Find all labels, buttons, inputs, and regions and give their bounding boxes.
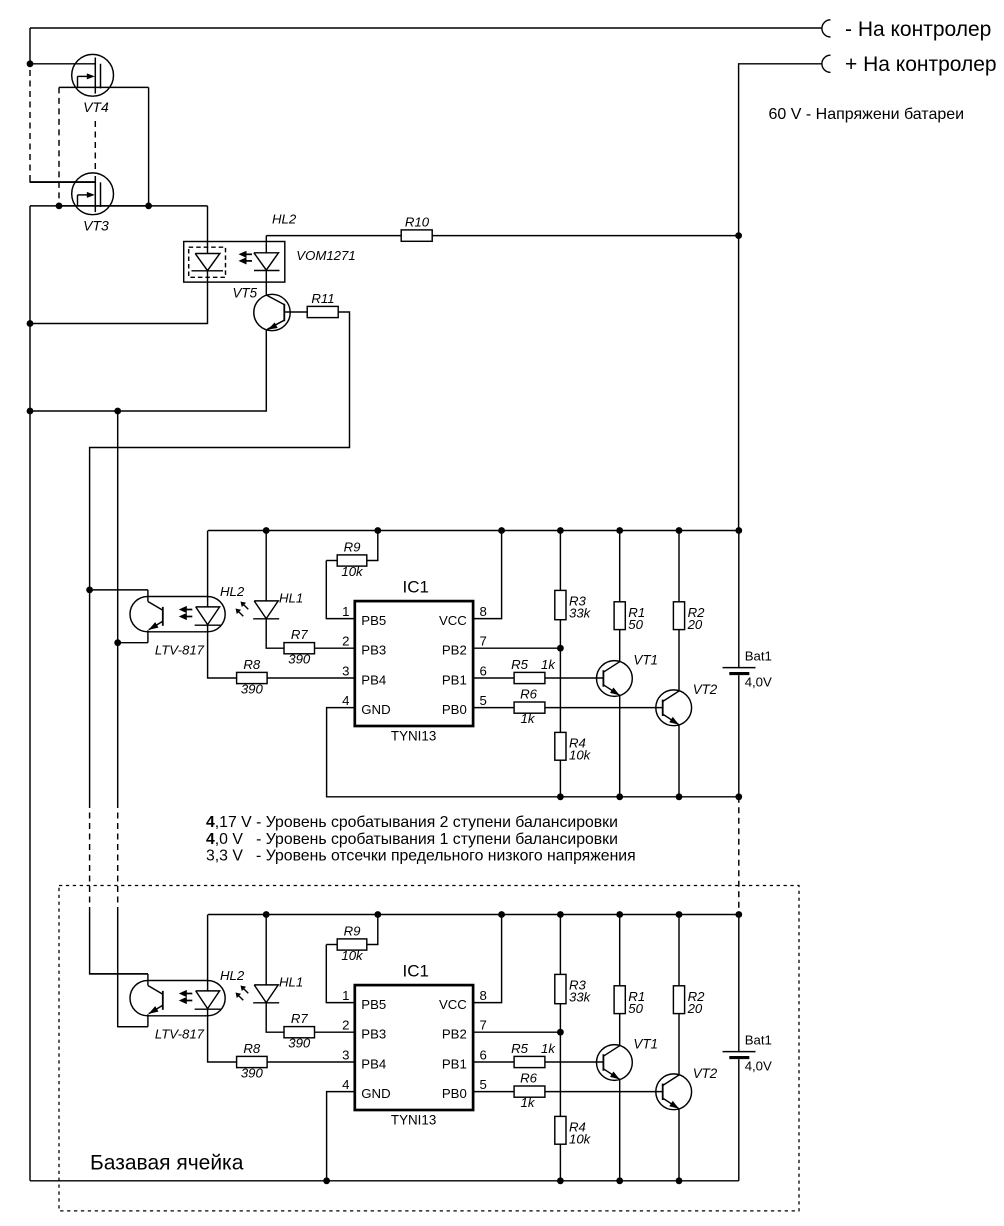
- optocoupler U3 VOM1271 body: [184, 242, 285, 283]
- node top rail junction (cell 1): [374, 527, 381, 534]
- svg-text:HL2: HL2: [220, 968, 245, 983]
- svg-text:4: 4: [342, 693, 349, 708]
- node top rail junction (cell 2): [735, 911, 742, 918]
- wire phototransistor collector lead (cell 2): [90, 973, 148, 975]
- svg-text:5: 5: [480, 1077, 487, 1092]
- wire opto collector drive dashed: [89, 802, 91, 912]
- wire cell bottom rail (cell 2): [30, 1180, 739, 1182]
- svg-text:PB1: PB1: [442, 672, 467, 687]
- svg-text:3: 3: [342, 664, 349, 679]
- svg-text:PB3: PB3: [361, 1027, 386, 1042]
- svg-text:HL1: HL1: [279, 591, 303, 606]
- svg-text:TYNI13: TYNI13: [391, 1113, 436, 1128]
- svg-text:6: 6: [480, 664, 487, 679]
- ic IC1 TYNI13 body (cell 2): [355, 985, 473, 1110]
- svg-text:2: 2: [342, 634, 349, 649]
- resistor R2 (cell 1): [678, 531, 680, 602]
- svg-text:R5: R5: [511, 1041, 529, 1056]
- svg-text:33k: 33k: [569, 605, 592, 620]
- svg-text:PB1: PB1: [442, 1056, 467, 1071]
- emission arrows HL1 (cell 1): [244, 605, 249, 610]
- wire phototransistor emitter lead (cell 1): [118, 642, 148, 644]
- optocoupler LTV-817 body (cell 1): [130, 597, 225, 632]
- node collector drive junction (cell 1): [86, 587, 93, 594]
- svg-text:4: 4: [342, 1077, 349, 1092]
- wire opto collector drive into cell2: [90, 912, 148, 974]
- svg-text:7: 7: [480, 1018, 487, 1033]
- svg-text:VOM1271: VOM1271: [296, 248, 355, 263]
- led HL2 of LTV-817 (cell 2): [207, 915, 209, 991]
- led of VOM1271: [265, 236, 267, 253]
- node photodiode-left rail: [27, 320, 34, 327]
- wire R5 to VT1 base (cell 1): [545, 677, 604, 679]
- svg-text:PB0: PB0: [442, 702, 467, 717]
- wire R5 to VT1 base (cell 2): [545, 1061, 604, 1063]
- node VT4 source junction: [145, 203, 152, 210]
- svg-text:IC1: IC1: [403, 578, 429, 597]
- svg-text:PB2: PB2: [442, 1027, 467, 1042]
- wire R8 to pin3 (cell 1): [267, 677, 355, 679]
- transistor VT1 (cell 1): [597, 661, 633, 697]
- svg-text:R9: R9: [344, 923, 362, 938]
- resistor R8 (cell 1): [237, 672, 268, 683]
- wire photodiode cathode to left rail: [30, 271, 208, 324]
- svg-text:8: 8: [480, 988, 487, 1003]
- light arrows LTV-817 (cell 2): [185, 993, 193, 995]
- node VT5 emitter rail-left rail: [27, 408, 34, 415]
- wire left rail main: [29, 206, 31, 1181]
- resistor R11: [307, 306, 338, 317]
- svg-text:5: 5: [480, 693, 487, 708]
- led HL2 of LTV-817 (cell 1): [207, 531, 209, 607]
- light arrows VOM1271: [245, 253, 253, 255]
- svg-text:PB3: PB3: [361, 643, 386, 658]
- transistor VT1 (cell 2): [597, 1045, 633, 1081]
- wire pin5 PB0 to R6 (cell 2): [473, 1091, 514, 1093]
- dotted box base cell: [59, 886, 799, 1211]
- wire - negative controller line: [30, 27, 822, 29]
- svg-text:60 V - Напряжени батареи: 60 V - Напряжени батареи: [769, 106, 965, 123]
- wire pin7 PB2 to R3/R4 node (cell 2): [473, 1031, 560, 1033]
- wire phototransistor collector lead (cell 1): [90, 589, 148, 591]
- wire R8 to pin3 (cell 2): [267, 1061, 355, 1063]
- svg-text:PB4: PB4: [361, 672, 386, 687]
- node R3-R4 divider (cell 2): [557, 1029, 564, 1036]
- wire phototransistor emitter lead (cell 2): [118, 1026, 148, 1028]
- wire HL1 cathode to R7 (cell 1): [266, 619, 284, 648]
- svg-text:10k: 10k: [341, 564, 364, 579]
- svg-text:R8: R8: [243, 1041, 261, 1056]
- svg-text:LTV-817: LTV-817: [155, 1027, 205, 1042]
- svg-text:PB0: PB0: [442, 1086, 467, 1101]
- node top rail junction (cell 1): [498, 527, 505, 534]
- node R3-R4 divider (cell 1): [557, 645, 564, 652]
- svg-text:PB5: PB5: [361, 613, 386, 628]
- svg-text:1k: 1k: [521, 711, 536, 726]
- svg-text:VT2: VT2: [693, 682, 718, 697]
- svg-text:TYNI13: TYNI13: [391, 729, 436, 744]
- svg-text:HL2: HL2: [272, 212, 297, 227]
- svg-text:50: 50: [628, 1001, 643, 1016]
- transistor VT3 (MOSFET): [72, 173, 114, 215]
- svg-text:10k: 10k: [341, 948, 364, 963]
- wire HL1 cathode to R7 (cell 2): [266, 1003, 284, 1032]
- node top rail junction (cell 2): [263, 911, 270, 918]
- wire R6 to VT2 base (cell 2): [545, 1091, 663, 1093]
- node top rail junction (cell 1): [263, 527, 270, 534]
- svg-text:R6: R6: [520, 687, 538, 702]
- transistor VT2 (cell 2): [656, 1074, 692, 1110]
- node top rail junction (cell 1): [557, 527, 564, 534]
- node top rail junction (cell 1): [735, 527, 742, 534]
- resistor R7 (cell 2): [284, 1027, 315, 1038]
- svg-text:PB4: PB4: [361, 1056, 386, 1071]
- wire VT5 emitter to left rail: [30, 330, 266, 411]
- svg-text:1k: 1k: [521, 1095, 536, 1110]
- svg-text:HL1: HL1: [279, 975, 303, 990]
- wire pin4 GND down (cell 2): [327, 1092, 355, 1181]
- svg-text:10k: 10k: [569, 1131, 592, 1146]
- photodiode of VOM1271: [189, 247, 226, 277]
- wire opto collector drive down cell1: [89, 590, 91, 802]
- wire opto emitter drive dashed: [117, 802, 119, 912]
- resistor R9 (cell 2): [326, 944, 337, 946]
- wire opto emitter drive into cell2: [118, 912, 148, 1027]
- wire R7 to pin2 (cell 2): [315, 1031, 355, 1033]
- wire pin6 PB1 to R5 (cell 1): [473, 677, 514, 679]
- node bottom rail plus junction (cell 1): [735, 793, 742, 800]
- wire plus rail down to cell1: [738, 236, 740, 531]
- svg-text:VT2: VT2: [693, 1066, 718, 1081]
- node top rail junction (cell 2): [676, 911, 683, 918]
- svg-text:390: 390: [288, 652, 311, 667]
- wire + controller to battery rail: [739, 64, 822, 236]
- svg-text:4,17 V - Уровень сробатывания: 4,17 V - Уровень сробатывания 2 ступени …: [206, 814, 618, 831]
- wire R9 right to top rail (cell 2): [367, 915, 378, 945]
- node top rail junction (cell 2): [374, 911, 381, 918]
- wire VT1 emitter to bottom rail (cell 1): [619, 695, 621, 796]
- terminal - to controller (minus): [822, 20, 831, 37]
- svg-text:R7: R7: [291, 627, 309, 642]
- node bottom rail junction (cell 1): [557, 793, 564, 800]
- phototransistor of LTV-817 (cell 2): [147, 974, 149, 986]
- svg-text:8: 8: [480, 604, 487, 619]
- svg-text:4,0V: 4,0V: [745, 1059, 772, 1074]
- wire pin8 VCC to top rail (cell 1): [473, 531, 502, 619]
- wire pin6 PB1 to R5 (cell 2): [473, 1061, 514, 1063]
- svg-text:R6: R6: [520, 1071, 538, 1086]
- node VT5 emitter-cell drive junction: [114, 408, 121, 415]
- svg-text:3: 3: [342, 1048, 349, 1063]
- svg-text:20: 20: [687, 1001, 703, 1016]
- transistor VT2 (cell 1): [656, 690, 692, 726]
- wire pin8 VCC to top rail (cell 2): [473, 915, 502, 1003]
- svg-text:GND: GND: [361, 1086, 390, 1101]
- wire pin5 PB0 to R6 (cell 1): [473, 707, 514, 709]
- svg-text:2: 2: [342, 1018, 349, 1033]
- wire led anode to R10: [266, 235, 401, 237]
- light arrows LTV-817 (cell 1): [185, 609, 193, 611]
- svg-text:Bat1: Bat1: [745, 649, 772, 664]
- node bottom rail junction (cell 2): [676, 1177, 683, 1184]
- wire left rail top segment: [29, 28, 31, 64]
- transistor VT4 (MOSFET): [72, 54, 114, 96]
- wire R9 right to top rail (cell 1): [367, 531, 378, 561]
- wire R7 to pin2 (cell 1): [315, 647, 355, 649]
- led HL1 (cell 1): [265, 531, 267, 601]
- svg-text:R5: R5: [511, 657, 529, 672]
- resistor R5 (cell 2): [514, 1056, 545, 1067]
- wire pin4 GND down (cell 1): [327, 708, 739, 797]
- battery Bat1 (cell 2): [738, 915, 740, 1052]
- wire dashed left rail continuation: [29, 70, 31, 175]
- node bottom rail junction (cell 2): [616, 1177, 623, 1184]
- node VT4 drain junction: [27, 60, 34, 67]
- svg-text:LTV-817: LTV-817: [155, 643, 205, 658]
- wire opto emitter drive down cell1: [117, 411, 119, 802]
- resistor R6 (cell 1): [514, 702, 545, 713]
- wire dashed drain chain VT4-VT3: [94, 121, 96, 171]
- emission arrows HL1 (cell 2): [244, 989, 249, 994]
- resistor R4 (cell 1): [559, 648, 561, 732]
- node GND-bottom rail (cell 2): [323, 1177, 330, 1184]
- svg-text:IC1: IC1: [403, 962, 429, 981]
- node R10-plus rail: [735, 232, 742, 239]
- svg-text:1k: 1k: [541, 657, 556, 672]
- resistor R4 (cell 2): [559, 1032, 561, 1116]
- node top rail junction (cell 1): [616, 527, 623, 534]
- optocoupler LTV-817 body (cell 2): [130, 981, 225, 1016]
- svg-text:R9: R9: [344, 539, 362, 554]
- svg-text:R7: R7: [291, 1011, 309, 1026]
- svg-text:6: 6: [480, 1048, 487, 1063]
- svg-text:4,0V: 4,0V: [745, 675, 772, 690]
- wire R9 left to pin1 (cell 2): [326, 945, 355, 1003]
- wire cell top rail (cell 2): [208, 914, 739, 916]
- wire led HL2 cathode to R8 (cell 2): [208, 1009, 237, 1062]
- node bottom rail junction (cell 2): [557, 1177, 564, 1184]
- node top rail junction (cell 2): [616, 911, 623, 918]
- resistor R5 (cell 1): [514, 672, 545, 683]
- node emitter drive junction (cell 1): [114, 639, 121, 646]
- node top rail junction (cell 2): [498, 911, 505, 918]
- resistor R1 (cell 1): [619, 531, 621, 602]
- wire R10 to plus rail: [432, 235, 738, 237]
- svg-text:Bat1: Bat1: [745, 1033, 772, 1048]
- wire dashed gate chain VT4-VT3: [58, 87, 60, 205]
- node bottom rail junction (cell 1): [676, 793, 683, 800]
- svg-text:390: 390: [288, 1036, 311, 1051]
- svg-text:4,0 V - Уровень сробатывания: 4,0 V - Уровень сробатывания 1 ступени б…: [206, 831, 618, 848]
- wire VT3 drain from left rail: [30, 175, 95, 182]
- resistor R9 (cell 1): [326, 560, 337, 562]
- svg-text:VT5: VT5: [233, 286, 258, 301]
- svg-text:1: 1: [342, 988, 349, 1003]
- node bottom rail junction (cell 1): [616, 793, 623, 800]
- resistor R2 (cell 2): [678, 915, 680, 986]
- battery Bat1 (cell 1): [738, 531, 740, 668]
- wire pin7 PB2 to R3/R4 node (cell 1): [473, 647, 560, 649]
- wire VT5 base to R11: [284, 311, 307, 313]
- resistor R3 (cell 1): [559, 531, 561, 591]
- wire led HL2 cathode to R8 (cell 1): [208, 625, 237, 678]
- svg-text:7: 7: [480, 634, 487, 649]
- svg-text:PB5: PB5: [361, 997, 386, 1012]
- node top rail junction (cell 1): [676, 527, 683, 534]
- svg-text:Базавая ячейка: Базавая ячейка: [90, 1152, 244, 1175]
- node gate rail junction: [56, 203, 63, 210]
- svg-text:VCC: VCC: [439, 613, 467, 628]
- svg-text:VT4: VT4: [83, 99, 109, 115]
- wire plus rail dashed between cells: [738, 797, 740, 915]
- svg-text:1k: 1k: [541, 1041, 556, 1056]
- svg-text:VT3: VT3: [83, 217, 109, 233]
- svg-text:R10: R10: [405, 214, 430, 229]
- svg-text:390: 390: [241, 1065, 264, 1080]
- wire VT4 source down: [148, 87, 150, 205]
- svg-text:1: 1: [342, 604, 349, 619]
- svg-text:VCC: VCC: [439, 997, 467, 1012]
- svg-text:3,3 V - Уровень отсечки пред: 3,3 V - Уровень отсечки предельного низк…: [206, 848, 636, 865]
- wire R9 left to pin1 (cell 1): [326, 561, 355, 619]
- led HL1 (cell 2): [265, 915, 267, 985]
- wire cell top rail (cell 1): [208, 530, 739, 532]
- resistor R1 (cell 2): [619, 915, 621, 986]
- resistor R8 (cell 2): [237, 1056, 268, 1067]
- svg-text:33k: 33k: [569, 989, 592, 1004]
- svg-text:GND: GND: [361, 702, 390, 717]
- svg-text:390: 390: [241, 681, 264, 696]
- node top rail junction (cell 2): [557, 911, 564, 918]
- resistor R6 (cell 2): [514, 1086, 545, 1097]
- wire R6 to VT2 base (cell 1): [545, 707, 663, 709]
- svg-text:20: 20: [687, 617, 703, 632]
- resistor R10: [401, 230, 432, 241]
- wire VT2 emitter to bottom rail (cell 1): [678, 725, 680, 797]
- phototransistor of LTV-817 (cell 1): [147, 590, 149, 602]
- svg-text:VT1: VT1: [633, 1037, 658, 1052]
- ic IC1 TYNI13 body (cell 1): [355, 601, 473, 726]
- svg-text:50: 50: [628, 617, 643, 632]
- svg-text:PB2: PB2: [442, 643, 467, 658]
- wire VT2 emitter to bottom rail (cell 2): [678, 1109, 680, 1181]
- svg-text:- На контролер: - На контролер: [845, 18, 991, 41]
- svg-text:R11: R11: [311, 291, 334, 306]
- svg-text:+ На контролер: + На контролер: [845, 53, 997, 76]
- svg-text:VT1: VT1: [633, 653, 658, 668]
- svg-text:R8: R8: [243, 657, 261, 672]
- wire R11 loop: [90, 312, 350, 590]
- svg-text:10k: 10k: [569, 747, 592, 762]
- wire gate-source rail y206: [30, 205, 208, 207]
- resistor R3 (cell 2): [559, 915, 561, 975]
- terminal + to controller (plus): [822, 55, 831, 72]
- resistor R7 (cell 1): [284, 643, 315, 654]
- wire VT1 emitter to bottom rail (cell 2): [619, 1079, 621, 1180]
- svg-text:HL2: HL2: [220, 584, 245, 599]
